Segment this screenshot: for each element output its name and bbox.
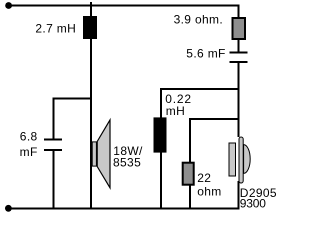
svg-text:8535: 8535 xyxy=(113,156,141,170)
svg-text:2.7 mH: 2.7 mH xyxy=(35,22,76,36)
svg-text:mH: mH xyxy=(166,104,185,118)
svg-text:22: 22 xyxy=(197,171,211,185)
svg-text:5.6 mF: 5.6 mF xyxy=(186,47,225,61)
svg-text:mF: mF xyxy=(20,145,38,159)
svg-text:9300: 9300 xyxy=(240,197,266,211)
svg-text:ohm: ohm xyxy=(197,184,221,198)
svg-text:3.9 ohm.: 3.9 ohm. xyxy=(174,13,224,27)
svg-text:6.8: 6.8 xyxy=(20,130,38,144)
